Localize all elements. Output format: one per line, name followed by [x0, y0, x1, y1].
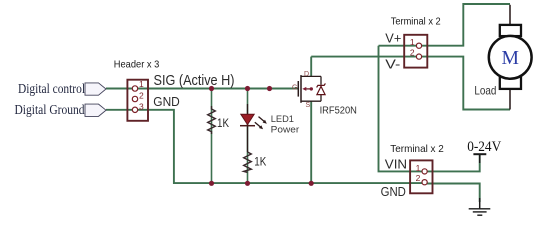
wire SIG rail from header pin1 to MOSFET gate	[135, 88, 298, 90]
ground bar 1	[469, 208, 491, 210]
LED1 light arrow lower	[255, 122, 260, 127]
svg-text:GND: GND	[153, 95, 180, 109]
svg-text:Terminal x 2: Terminal x 2	[390, 143, 444, 155]
svg-text:3: 3	[139, 101, 144, 111]
transistor Q1 IRF520N gate bar	[297, 81, 299, 97]
junction dot SIG at LED column	[245, 86, 250, 91]
body diode bottom lead	[320, 95, 322, 102]
wire resistor R1 column	[211, 89, 213, 184]
terminal bottom pin 2 circle	[422, 180, 427, 185]
svg-text:1: 1	[416, 163, 421, 173]
transistor Q1 body arrow	[304, 88, 311, 90]
wire VIN riser from V+ down to bottom terminal pin1	[379, 46, 425, 172]
terminal block bottom body	[410, 160, 432, 193]
motor bottom terminal rect	[500, 75, 521, 89]
ground bar 3	[477, 214, 482, 216]
LED1 lead	[247, 104, 249, 152]
terminal top pin 1 circle	[416, 43, 421, 48]
resistor R2 zigzag	[244, 152, 252, 172]
wire flag1 to header pin1	[106, 88, 135, 90]
svg-text:2: 2	[139, 91, 144, 101]
flag Digital Ground	[85, 104, 106, 116]
svg-text:2: 2	[416, 173, 421, 183]
transistor Q1 channel bar	[300, 75, 302, 103]
svg-text:1K: 1K	[254, 157, 266, 169]
svg-text:VIN: VIN	[385, 157, 407, 171]
svg-text:1K: 1K	[217, 118, 229, 130]
svg-text:Load: Load	[474, 83, 496, 97]
svg-text:SIG (Active H): SIG (Active H)	[154, 72, 235, 89]
svg-text:1: 1	[410, 37, 415, 47]
header pin 3 circle	[132, 107, 137, 112]
junction dot SIG wire segment end	[267, 86, 272, 91]
junction dot rail at MOSFET source	[309, 181, 314, 186]
wire GND from header pin3 down to bottom rail	[135, 110, 425, 183]
svg-text:1: 1	[139, 79, 144, 89]
wire LED / R2 column	[247, 89, 249, 184]
svg-text:Digital control: Digital control	[18, 81, 85, 96]
motor M1 body	[489, 36, 532, 79]
body diode cathode bar	[317, 83, 326, 87]
svg-text:2: 2	[410, 48, 415, 58]
flag Digital control	[85, 83, 106, 95]
svg-text:M: M	[502, 47, 520, 69]
svg-text:Header x 3: Header x 3	[114, 58, 160, 70]
wire V+ net from VIN riser to terminal and motor loop	[379, 4, 511, 46]
motor bottom lead	[509, 89, 511, 110]
body diode triangle	[317, 86, 325, 94]
terminal bottom pin 1 circle	[422, 169, 427, 174]
svg-text:S: S	[306, 102, 311, 109]
LED1 cathode bar	[240, 125, 255, 127]
svg-text:LED1: LED1	[271, 114, 294, 125]
header pin 1 circle	[132, 86, 137, 91]
transistor Q1 drain stub	[301, 75, 321, 77]
ground bar 2	[473, 211, 487, 213]
LED1 light arrow upper	[259, 117, 265, 122]
terminal block top body	[404, 35, 427, 68]
LED1 triangle	[241, 114, 254, 124]
wire MOSFET drain riser to V- line	[310, 57, 312, 77]
body diode top lead	[320, 76, 322, 84]
header pin 2 circle	[132, 96, 137, 101]
svg-text:G: G	[292, 85, 297, 92]
svg-text:Digital Ground: Digital Ground	[15, 102, 85, 117]
svg-text:V+: V+	[385, 32, 401, 46]
junction dot SIG at R1	[209, 86, 214, 91]
junction dot rail at R2	[245, 181, 250, 186]
svg-text:0-24V: 0-24V	[467, 139, 501, 155]
wire bottom terminal pin2 to ground	[425, 184, 480, 203]
supply bar 0-24V	[473, 153, 486, 155]
svg-text:V-: V-	[385, 57, 400, 71]
svg-text:GND: GND	[381, 185, 406, 199]
wire flag2 to header pin3	[106, 109, 135, 111]
motor top terminal rect	[500, 25, 521, 36]
transistor Q1 source stub	[301, 100, 321, 102]
terminal top pin 2 circle	[416, 54, 421, 59]
wire V- net from drain riser to terminal and motor loop	[311, 57, 510, 110]
supply lead	[479, 154, 481, 163]
motor top lead	[509, 5, 511, 25]
wire MOSFET source to bottom rail	[310, 101, 312, 183]
svg-text:Power: Power	[271, 125, 300, 136]
svg-text:Terminal x 2: Terminal x 2	[391, 16, 441, 27]
svg-text:IRF520N: IRF520N	[320, 106, 357, 117]
header J1 body	[127, 80, 148, 121]
svg-text:D: D	[304, 71, 309, 78]
resistor R1 zigzag	[208, 106, 216, 134]
ground lead	[479, 198, 481, 208]
junction dot rail at R1	[209, 181, 214, 186]
wire bottom terminal pin1 to 0-24V supply	[425, 155, 480, 171]
